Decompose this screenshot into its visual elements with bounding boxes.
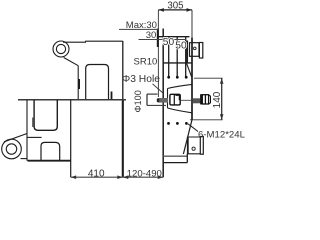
leader arrow blob xyxy=(157,99,159,102)
plate top edge xyxy=(157,36,189,38)
dim 140 arrows xyxy=(220,78,224,84)
component block square xyxy=(190,43,200,57)
dim 140 top extension xyxy=(194,77,223,79)
plate right edge xyxy=(191,38,193,120)
component pin circle xyxy=(194,47,197,50)
gusset diagonal xyxy=(187,63,192,77)
left bolt shank gray xyxy=(158,98,169,103)
column thick tick xyxy=(157,29,159,48)
svg-text:50: 50 xyxy=(175,40,187,51)
bottom block pin circle xyxy=(192,147,195,150)
svg-text:120-490: 120-490 xyxy=(127,168,162,179)
plate seat line xyxy=(163,62,192,64)
bottom-left lug inner circle xyxy=(6,144,16,154)
top-left lug inner circle xyxy=(56,44,65,53)
bottom block outline xyxy=(188,137,201,154)
right bolt head body xyxy=(202,95,210,104)
stud dots row 2 xyxy=(167,122,170,125)
arm inner horizontal xyxy=(27,136,42,138)
body inner left vertical xyxy=(77,66,79,100)
svg-text:305: 305 xyxy=(167,0,183,11)
svg-text:140: 140 xyxy=(212,91,223,108)
center body left vertical xyxy=(70,100,72,177)
left bolt head xyxy=(170,94,180,105)
6-M12*24L leader xyxy=(188,124,198,132)
lug lower tangent diagonal xyxy=(64,58,78,66)
Max:30 leader underline xyxy=(119,28,158,30)
lower-left arm left vertical xyxy=(26,100,28,161)
top-left lug outer circle xyxy=(53,41,69,57)
stud bolt 3 xyxy=(185,37,187,77)
column thin extension vertical xyxy=(157,10,159,97)
U slot left jog line xyxy=(32,118,34,128)
dimension 305 right extension xyxy=(191,10,193,38)
bell throat vertical xyxy=(167,89,169,109)
svg-text:410: 410 xyxy=(88,168,105,179)
component thick left bar xyxy=(186,41,188,63)
shelf bottom line xyxy=(163,162,187,164)
dim 140 bottom extension xyxy=(190,119,223,121)
body top edge xyxy=(63,41,123,42)
bell top slant xyxy=(168,84,193,88)
bottom block left thick edge xyxy=(187,137,189,154)
svg-text:6-M12*24L: 6-M12*24L xyxy=(198,130,245,141)
bottom block right double plate xyxy=(200,137,203,155)
dim 140 line xyxy=(221,78,223,120)
arm bottom line xyxy=(28,160,71,162)
right bolt head thick bar xyxy=(200,94,202,104)
rounded slot upper xyxy=(86,65,109,100)
stud bolt 1 xyxy=(168,37,170,77)
stud bolt 2 xyxy=(176,37,178,77)
svg-text:30: 30 xyxy=(146,30,157,41)
top edge step connector xyxy=(85,41,87,43)
foot rounded shape xyxy=(41,142,60,160)
plate left edge xyxy=(162,29,164,178)
body right edge upper xyxy=(122,41,124,100)
lug bottom stub xyxy=(21,158,28,160)
svg-text:50: 50 xyxy=(163,37,175,48)
bolt centerline right xyxy=(181,99,192,101)
bell bottom slant xyxy=(168,108,193,113)
svg-text:Φ100: Φ100 xyxy=(133,90,143,112)
arm diagonal to lug xyxy=(4,134,27,142)
30 leader underline xyxy=(139,39,187,41)
shelf right vertical xyxy=(186,154,188,163)
component side plate xyxy=(199,43,202,59)
stud dots row 1 xyxy=(167,76,188,125)
body right edge lower thick xyxy=(122,100,124,177)
bottom dim arrows xyxy=(71,175,164,179)
main horizontal line y99.8 xyxy=(18,99,126,101)
svg-text:Φ3 Hole: Φ3 Hole xyxy=(122,74,160,85)
lower U slot xyxy=(34,100,57,130)
dimension 305 line xyxy=(158,8,192,38)
svg-text:SR10: SR10 xyxy=(134,57,158,68)
Phi3 hole leader xyxy=(153,84,164,94)
thick weld segment right xyxy=(111,92,113,100)
right bolt shank gray xyxy=(193,98,200,103)
slant body edge lower right xyxy=(183,120,192,154)
bottom dimension line xyxy=(71,176,164,178)
bottom-left lug outer circle xyxy=(2,139,22,159)
shelf top line xyxy=(163,155,187,157)
thick weld segment left xyxy=(78,79,80,89)
Phi100 dim bracket xyxy=(147,94,166,105)
